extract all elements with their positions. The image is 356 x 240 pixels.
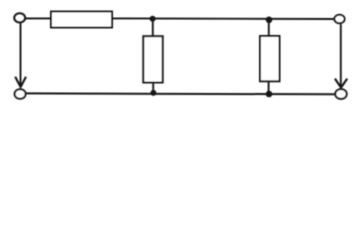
resistor R3 (shunt, right) [260, 36, 280, 81]
resistor R2 (shunt, left) [143, 36, 162, 82]
wire (bottom lead of R2) [152, 83, 154, 94]
arrowhead (right voltage arrow, pointing down) [335, 79, 347, 88]
wire (top lead of R3) [268, 20, 270, 36]
node C (junction dot, top of R3) [266, 17, 273, 24]
terminal (right top) [334, 15, 344, 24]
terminal (left top) [14, 13, 25, 22]
node A (junction dot, top of R2) [150, 16, 156, 22]
resistor R1 (series, top) [51, 12, 112, 28]
wire (left voltage arrow shaft) [20, 23, 22, 86]
wire (right voltage arrow shaft) [340, 24, 342, 86]
wire (bottom rail) [26, 92, 334, 95]
wire (top, R1 to right terminal) [113, 17, 335, 20]
node D (junction dot, bottom of R3) [266, 91, 273, 98]
terminal (left bottom) [15, 89, 26, 98]
node B (junction dot, bottom of R2) [150, 90, 156, 96]
terminal (right bottom) [335, 89, 346, 99]
wire (bottom lead of R3) [268, 81, 270, 94]
wire (top lead of R2) [152, 19, 154, 36]
wire (left top terminal to R1) [26, 17, 51, 19]
arrowhead (left voltage arrow, pointing down) [15, 77, 26, 87]
